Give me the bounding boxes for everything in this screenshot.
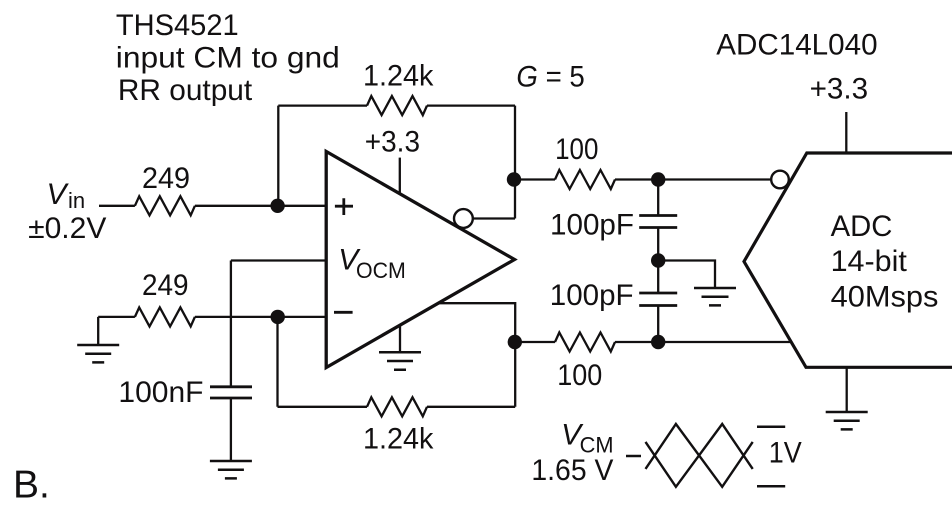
node junction dot (+ input) <box>270 199 284 213</box>
svg-text:+3.3: +3.3 <box>365 125 420 158</box>
ground G2 (100nF) <box>210 461 252 478</box>
wire Vin input lead to + input <box>99 205 326 207</box>
resistor R2 1.24k (top feedback) <box>367 96 427 115</box>
wire input- lead <box>98 316 326 318</box>
wire op-amp ground stem <box>399 325 401 352</box>
wire capacitor chain vertical <box>657 180 659 343</box>
svg-text:100pF: 100pF <box>550 208 634 241</box>
wire ADC +3.3 supply stem <box>845 112 847 153</box>
wire from op-amp output bubble <box>473 217 515 219</box>
wire feedback top right vertical <box>514 106 516 219</box>
svg-text:1.65 V: 1.65 V <box>531 454 613 487</box>
wire feedback top rail <box>278 104 515 106</box>
node junction dot (out- left) <box>508 335 522 349</box>
svg-text:1V: 1V <box>769 437 802 470</box>
ground G1 (input -) <box>77 345 119 362</box>
svg-text:±0.2V: ±0.2V <box>28 212 106 245</box>
svg-text:input CM to gnd: input CM to gnd <box>116 41 340 74</box>
resistor R1 249 (input +) <box>135 196 195 215</box>
node junction dot (out+ right) <box>651 172 665 186</box>
node junction dot (cap midpoint) <box>651 253 665 267</box>
wire feedback bottom rail <box>278 406 516 408</box>
resistor R3 100 (top output) <box>555 170 615 189</box>
1V swing overbar <box>757 426 785 429</box>
svg-text:in: in <box>68 188 85 213</box>
wire VOCM node and bypass branch <box>231 261 326 387</box>
wire output- rail <box>515 341 791 343</box>
svg-text:100pF: 100pF <box>550 279 634 312</box>
VCM waveform wave B <box>646 424 753 487</box>
node junction dot (out+ left) <box>507 172 521 186</box>
wire ADC ground stem <box>846 367 848 411</box>
wire op-amp +3.3 supply stem <box>399 158 401 194</box>
VCM waveform wave A <box>646 424 753 487</box>
svg-text:ADC14L040: ADC14L040 <box>716 28 877 61</box>
svg-text:+3.3: +3.3 <box>810 72 869 105</box>
svg-text:40Msps: 40Msps <box>831 280 939 313</box>
svg-text:100: 100 <box>557 359 602 392</box>
svg-text:249: 249 <box>142 269 189 302</box>
capacitor C2 100pF (lower) <box>639 293 677 306</box>
svg-text:100: 100 <box>555 133 598 166</box>
wire output- from op-amp <box>438 303 515 342</box>
svg-text:THS4521: THS4521 <box>116 9 239 42</box>
VCM source dash <box>626 455 641 458</box>
wire feedback bottom right vertical <box>514 342 516 407</box>
ground G3 (cap midpoint) <box>694 288 736 305</box>
resistor R6 249 (input -) <box>135 307 195 326</box>
capacitor C3 100nF <box>210 387 252 398</box>
node junction dot (out- right) <box>651 335 665 349</box>
wire feedback top left vertical <box>277 106 279 206</box>
resistor R4 100 (bottom output) <box>555 333 615 352</box>
resistor R5 1.24k (bottom feedback) <box>367 397 427 416</box>
svg-text:ADC: ADC <box>831 210 893 243</box>
svg-text:14-bit: 14-bit <box>831 245 908 278</box>
svg-text:100nF: 100nF <box>118 376 203 409</box>
wire output+ rail <box>514 178 771 180</box>
1V swing underbar <box>757 485 785 488</box>
ground G5 (ADC) <box>826 412 868 429</box>
op-amp U1 THS4521 triangle <box>326 152 514 368</box>
svg-text:B.: B. <box>13 463 50 506</box>
ADC input bubble <box>771 171 789 189</box>
op-amp plus input marker <box>335 198 353 215</box>
svg-text:V: V <box>47 178 70 211</box>
svg-text:RR output: RR output <box>118 74 253 107</box>
ADC U2 ADC14L040 outline <box>744 153 952 367</box>
node junction dot (- input) <box>271 310 285 324</box>
ground G4 (op-amp) <box>379 352 421 370</box>
svg-text:1.24k: 1.24k <box>363 423 434 456</box>
svg-text:G = 5: G = 5 <box>516 60 584 93</box>
wire cap midpoint to ground <box>658 261 715 289</box>
op-amp minus input marker <box>334 311 353 314</box>
wire 100nF to ground <box>230 398 232 460</box>
op-amp inverting output bubble <box>454 209 473 228</box>
capacitor C1 100pF (upper) <box>639 216 677 228</box>
wire input- ground stem <box>97 317 99 344</box>
svg-text:OCM: OCM <box>356 258 406 283</box>
wire feedback bottom left vertical <box>276 317 278 407</box>
svg-text:1.24k: 1.24k <box>363 60 434 93</box>
svg-text:249: 249 <box>142 162 190 195</box>
